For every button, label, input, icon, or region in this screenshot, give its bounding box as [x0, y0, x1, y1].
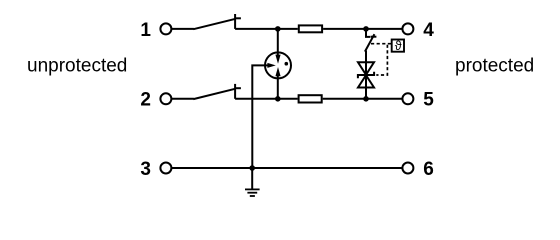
node line 1 / suppressor branch: [363, 26, 369, 32]
wire switch to resistor line 1: [235, 28, 298, 30]
switch fixed contact line 2: [234, 84, 236, 99]
svg-text:unprotected: unprotected: [27, 55, 127, 76]
gas discharge tube insulation dot: [285, 62, 289, 66]
svg-text:1: 1: [140, 20, 151, 41]
wire blade to suppressor diode: [365, 51, 367, 99]
terminal 2: [160, 93, 171, 104]
suppressor diode bar with hooks: [358, 72, 374, 79]
node line 1 / gas discharge tube: [275, 26, 281, 32]
switch fixed contact line 1: [234, 14, 236, 29]
switch blade line 1: [193, 19, 235, 29]
wire suppressor branch upper stub with hook: [366, 29, 370, 37]
svg-text:6: 6: [423, 159, 434, 180]
thermal disconnect blade: [365, 34, 375, 51]
switch blade line 2: [193, 89, 235, 99]
node line 2 / gas discharge tube: [275, 96, 281, 102]
thermal disconnect tick: [371, 36, 377, 38]
resistor R2: [299, 95, 322, 102]
svg-text:protected: protected: [455, 55, 534, 76]
svg-text:2: 2: [140, 90, 151, 111]
node line 2 / suppressor branch: [363, 96, 369, 102]
gas discharge tube left arrow: [267, 63, 275, 68]
gas discharge tube F2: [265, 52, 291, 78]
ground bar 1: [245, 188, 260, 190]
thermal sensor box: [392, 40, 404, 52]
terminal 1: [160, 23, 171, 34]
terminal 3: [160, 163, 171, 174]
wire terminal 2 to switch: [171, 98, 194, 100]
wire ground stub: [251, 168, 253, 189]
wire switch to resistor line 2: [235, 98, 298, 100]
ground bar 3: [250, 195, 255, 197]
wire gas discharge tube bottom shaft: [277, 76, 279, 99]
svg-text:3: 3: [140, 159, 151, 180]
switch tick line 2: [235, 87, 241, 89]
terminal 5: [402, 93, 413, 104]
gas discharge tube bottom arrow: [275, 67, 280, 76]
suppressor diode upper triangle: [358, 62, 374, 75]
wire resistor to terminal 4: [323, 28, 402, 30]
wire gas discharge tube left arm: [252, 65, 267, 168]
svg-text:4: 4: [423, 20, 434, 41]
ground bar 2: [247, 192, 257, 194]
gas discharge tube top arrow: [275, 55, 280, 64]
dashed link thermal switch to sensor box: [371, 43, 391, 45]
wire terminal 1 to switch: [171, 28, 194, 30]
svg-text:5: 5: [423, 90, 434, 111]
svg-text:ϑ: ϑ: [395, 39, 402, 53]
wire resistor to terminal 5: [323, 98, 403, 100]
terminal 6: [402, 163, 413, 174]
suppressor diode lower triangle: [358, 75, 374, 87]
dashed link to suppressor diode: [376, 45, 387, 75]
resistor R1: [299, 25, 322, 32]
wire gas discharge tube top shaft: [277, 29, 279, 56]
node ground junction: [249, 165, 255, 171]
switch tick line 1: [235, 17, 241, 19]
terminal 4: [402, 23, 413, 34]
wire line 3: [171, 167, 402, 169]
